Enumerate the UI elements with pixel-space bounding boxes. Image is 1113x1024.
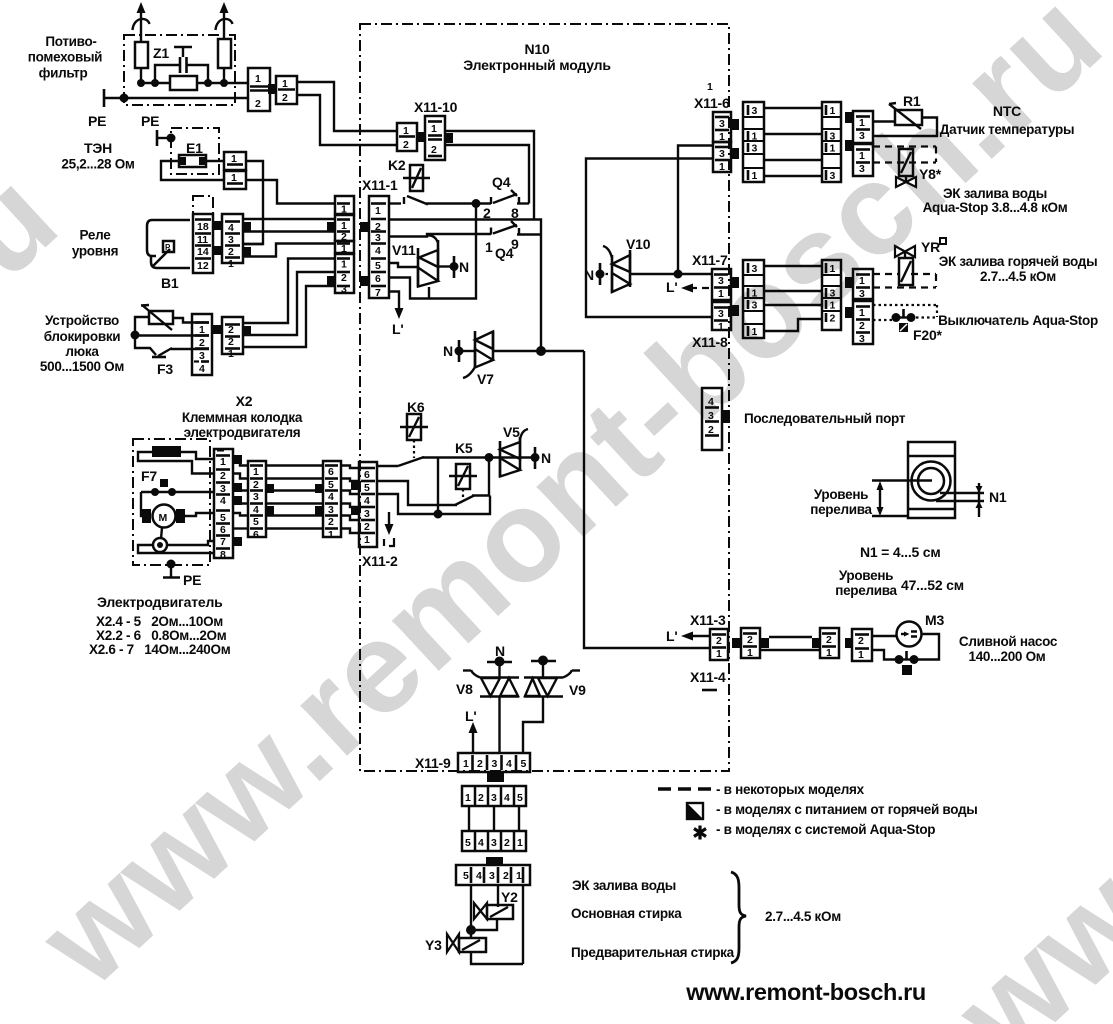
N terminal V8 [487, 657, 512, 678]
wire X11-2 pin5 to K5 contact [377, 481, 457, 505]
junction dot X11-7 line [674, 270, 683, 279]
pump thermal switch [895, 651, 919, 675]
junction dots on filter wire [137, 79, 228, 87]
svg-text:Потиво-: Потиво- [45, 34, 96, 49]
X11-10 right square [445, 133, 453, 143]
svg-text:- в некоторых моделях: - в некоторых моделях [716, 782, 865, 797]
svg-text:2: 2 [341, 272, 347, 284]
svg-text:5: 5 [517, 792, 523, 804]
X11-6 right squares [731, 119, 739, 159]
label level overflow [810, 487, 872, 517]
svg-text:K5: K5 [455, 440, 473, 456]
contact K5 [455, 458, 489, 506]
svg-text:2: 2 [503, 870, 509, 882]
svg-text:1: 1 [752, 170, 758, 182]
resistor in filter (horizontal) [170, 76, 197, 90]
triac V9 [524, 670, 580, 697]
B1 mate connector 4/3/2/1 [222, 214, 243, 270]
label L' X11-7 [666, 279, 677, 295]
svg-text:Y3: Y3 [425, 937, 442, 953]
connector X11-9 [458, 753, 530, 772]
svg-text:2: 2 [328, 516, 334, 528]
label Y3 [425, 937, 442, 953]
wire door pin2a to X11-1 mate [243, 259, 335, 324]
svg-text:1: 1 [707, 81, 713, 93]
capacitor plates [180, 57, 187, 73]
svg-text:6: 6 [328, 466, 334, 478]
svg-text:X11-1: X11-1 [362, 177, 398, 193]
wire V9 down to X11-9 [523, 697, 543, 753]
svg-text:N: N [459, 259, 469, 275]
door lock pin column 1/2/3/4 [192, 314, 212, 375]
noise filter enclosure Z1 box [124, 35, 235, 105]
pump component connector [845, 638, 853, 648]
label M3 [925, 612, 944, 628]
svg-text:X2.6 - 7 14Ом...240Ом: X2.6 - 7 14Ом...240Ом [89, 642, 231, 657]
svg-text:B1: B1 [161, 275, 179, 291]
svg-text:25,2...28 Ом: 25,2...28 Ом [61, 157, 134, 172]
valve block connector 54321 [456, 865, 530, 885]
label X11-9 [415, 755, 451, 771]
svg-text:1: 1 [830, 300, 836, 312]
svg-text:1: 1 [228, 348, 234, 360]
svg-text:3: 3 [830, 288, 836, 300]
NTC far stack [822, 102, 841, 182]
svg-text:2: 2 [859, 320, 865, 332]
svg-text:3: 3 [341, 284, 347, 296]
label PE heater [141, 113, 159, 129]
valve Y8 [896, 149, 916, 187]
label F20* [913, 327, 943, 343]
svg-text:3: 3 [491, 792, 497, 804]
svg-text:PE: PE [88, 113, 106, 129]
svg-text:1: 1 [830, 143, 836, 155]
contact K6 [377, 457, 424, 466]
svg-text:1: 1 [465, 792, 471, 804]
wire right choke up with arrow [216, 2, 233, 39]
connector X11-3 [710, 629, 728, 660]
label Z1 [153, 45, 169, 61]
harness wires 1-3-5 [469, 806, 519, 831]
triac V5 [500, 429, 528, 477]
label F7 [141, 468, 157, 484]
label serial port [744, 411, 906, 426]
label Y8* [919, 166, 942, 182]
N terminal V9 [531, 656, 556, 678]
label K5 [455, 440, 473, 456]
mate stack right squares [266, 484, 274, 515]
hot water component connector [853, 269, 873, 300]
wire X11-2 pin4 branch [377, 458, 490, 519]
svg-text:3: 3 [708, 410, 714, 422]
wire filter pin2 to X11-10 [297, 95, 397, 145]
svg-text:3: 3 [752, 143, 758, 155]
connector E1 top [224, 152, 246, 170]
label V10 [626, 236, 651, 252]
dimension arrow level [877, 481, 884, 516]
NTC harness wires [764, 108, 822, 176]
motor M armature [142, 505, 185, 528]
wire X11-1 pin2 long L line [389, 220, 541, 352]
svg-text:5: 5 [463, 870, 469, 882]
svg-text:NTC: NTC [993, 103, 1021, 119]
X2 column right squares [234, 455, 242, 546]
L' arrow X11-3 [681, 632, 710, 641]
svg-text:3: 3 [719, 148, 725, 160]
label X11-4 [690, 669, 726, 685]
svg-text:2: 2 [364, 521, 370, 533]
relay coil K6 [400, 414, 428, 458]
wire E1 top to B1 pin2 (down at x263) [243, 161, 263, 244]
svg-text:2.7...4.5 кОм: 2.7...4.5 кОм [765, 909, 841, 924]
svg-text:ЭК залива воды: ЭК залива воды [943, 186, 1047, 201]
F3 thermal switch [135, 335, 209, 357]
label N V8 [495, 643, 505, 659]
relay coil K5 [449, 464, 477, 499]
N terminal of V7 [455, 340, 476, 362]
main filter wire [141, 68, 248, 83]
wire X11-1 pin6 loop up to junction [389, 204, 476, 299]
choke L2 (right vertical resistor) [218, 39, 231, 68]
wire door pin2b to X11-1 mate [243, 272, 335, 335]
svg-text:1: 1 [463, 758, 469, 770]
wire E1 bottom to X11-1 pin1 [246, 180, 335, 204]
wire cell5 down [470, 885, 472, 939]
svg-text:M3: M3 [925, 612, 944, 628]
svg-text:1: 1 [752, 131, 758, 143]
svg-text:Последовательный порт: Последовательный порт [744, 411, 906, 426]
svg-text:4: 4 [220, 495, 226, 507]
N terminal of V10 [596, 263, 613, 285]
door lock thermistor [141, 305, 173, 330]
motor enclosure [133, 439, 210, 565]
X11-1 mate stack squares [327, 222, 335, 286]
svg-text:1: 1 [718, 321, 724, 333]
junction dot pin1 line [472, 199, 481, 208]
dotted circuit F20 [873, 305, 937, 320]
svg-text:- в моделях с питанием от гор: - в моделях с питанием от горячей воды [716, 802, 978, 817]
label X11-3 [690, 612, 726, 628]
wire tacho circle left loop to pin8 [138, 545, 215, 553]
wire X11-10 pin2 to Q4 contact 8 [445, 145, 529, 204]
svg-text:1: 1 [253, 466, 259, 478]
wire left choke up with arrow [133, 2, 150, 42]
wire B1 pin4 to X11-1 mate [243, 218, 335, 220]
label Q4 upper [492, 174, 511, 190]
wire V8 down to X11-9 [498, 697, 500, 753]
label Y2 [501, 889, 518, 905]
connector X11-1 [369, 196, 389, 299]
svg-text:F3: F3 [157, 361, 173, 377]
label K2 [388, 157, 406, 173]
svg-text:1: 1 [752, 326, 758, 338]
X2 pin column 1-8 [214, 449, 233, 561]
wire V11 bottom to loop [428, 287, 430, 299]
wire tacho left loop to pin2 [138, 452, 215, 474]
label N V5 [541, 450, 551, 466]
connector 1/2 after filter [248, 68, 270, 111]
svg-text:2: 2 [716, 635, 722, 647]
triac V11 [418, 235, 438, 287]
svg-text:Q4: Q4 [492, 174, 511, 190]
thermistor R1 [889, 103, 922, 129]
svg-text:2: 2 [220, 470, 226, 482]
svg-text:3: 3 [489, 870, 495, 882]
svg-text:1: 1 [859, 275, 865, 287]
svg-text:1: 1 [859, 307, 865, 319]
N1 lines [936, 483, 984, 517]
svg-text:4: 4 [506, 758, 512, 770]
choke L1 (left vertical resistor) [135, 42, 148, 68]
wire B1 pin1 to X11-1 mate [243, 244, 335, 257]
label E1 [186, 140, 203, 156]
wire main to pin2 [135, 334, 209, 336]
door lock mate connector 2/2/1 [222, 317, 243, 360]
svg-text:Выключатель Aqua-Stop: Выключатель Aqua-Stop [938, 313, 1098, 328]
svg-text:N: N [541, 450, 551, 466]
wire R1 loop [873, 118, 937, 137]
svg-text:Y2: Y2 [501, 889, 518, 905]
X11-2 L' arrow [384, 512, 394, 546]
svg-text:5: 5 [364, 482, 370, 494]
svg-text:1: 1 [826, 647, 832, 659]
NTC component connector [853, 111, 873, 143]
svg-text:6: 6 [375, 273, 381, 285]
wire motor right to pin5 [185, 513, 215, 516]
svg-text:2: 2 [403, 139, 409, 151]
legend text 2 [716, 802, 978, 817]
door lock label [40, 313, 124, 374]
valve block mating black rect [486, 857, 503, 865]
connector X11-10 [425, 116, 445, 160]
label N1 [989, 489, 1007, 505]
svg-text:YR: YR [921, 239, 940, 255]
label X11-10 [414, 99, 458, 115]
svg-text:ТЭН: ТЭН [84, 140, 112, 156]
wire pump pin2 to M3 [872, 635, 897, 637]
svg-text:47...52 см: 47...52 см [901, 577, 964, 593]
svg-text:1: 1 [719, 161, 725, 173]
svg-text:L': L' [666, 628, 677, 644]
wire Y3 bottom loop [471, 952, 523, 964]
thermal contact F7 [141, 479, 215, 496]
svg-text:1: 1 [716, 648, 722, 660]
svg-text:- в моделях с системой Aqua-S: - в моделях с системой Aqua-Stop [716, 822, 935, 837]
motor resistance labels [89, 594, 231, 657]
label drain pump [959, 634, 1058, 664]
X11-7/8 right squares [731, 277, 739, 316]
svg-text:1: 1 [364, 534, 370, 546]
junction dot Y2/Y3 [466, 925, 476, 935]
X11-7/8 mate stack [743, 260, 764, 338]
X11-3 mate squares [732, 638, 741, 648]
wire V7 line down to X11-3 [584, 351, 710, 648]
svg-text:3: 3 [859, 288, 865, 300]
svg-text:L': L' [465, 708, 476, 724]
svg-text:5: 5 [253, 516, 259, 528]
svg-text:1: 1 [431, 123, 437, 135]
svg-text:7: 7 [220, 536, 226, 548]
svg-text:7: 7 [375, 287, 381, 299]
X11-10 mating square [417, 132, 425, 142]
svg-text:1: 1 [375, 205, 381, 217]
svg-text:140...200 Ом: 140...200 Ом [969, 649, 1046, 664]
harness connector 12345 [462, 786, 526, 806]
svg-text:Электронный модуль: Электронный модуль [463, 57, 611, 73]
label L' X11-9 [465, 708, 476, 724]
serial port connector [702, 388, 722, 450]
junction dot V5 line [485, 453, 494, 462]
heater E1 enclosure [171, 128, 219, 174]
svg-text:2: 2 [255, 98, 261, 110]
wire door pin1 to X11-1 mate [243, 286, 335, 347]
label V11 [392, 242, 416, 258]
label V5 [503, 424, 520, 440]
hot water harness wires [764, 266, 822, 331]
svg-text:1: 1 [752, 288, 758, 300]
svg-text:2: 2 [431, 144, 437, 156]
svg-text:N1: N1 [989, 489, 1007, 505]
svg-text:1: 1 [231, 172, 237, 184]
svg-text:электродвигателя: электродвигателя [184, 425, 301, 440]
relay coil K2 [403, 165, 430, 191]
mate connector 1/2 [276, 76, 297, 104]
pressure switch B1 enclosure [193, 196, 213, 273]
svg-text:2: 2 [747, 634, 753, 646]
tacho coil (black rect) [152, 446, 181, 457]
wire K6 to V5 line [422, 456, 535, 458]
label R1 [903, 93, 921, 109]
svg-text:8: 8 [220, 549, 226, 561]
X11-3 mate connector [741, 628, 760, 659]
wire E1 right [206, 160, 224, 162]
svg-text:X11-2: X11-2 [362, 553, 398, 569]
svg-text:12: 12 [197, 260, 209, 272]
junction dot V7 line [536, 346, 546, 356]
svg-text:3: 3 [752, 263, 758, 275]
label V9 [569, 682, 586, 698]
svg-text:Устройство: Устройство [45, 313, 119, 328]
svg-text:1: 1 [228, 258, 234, 270]
legend text 1 [716, 782, 865, 797]
svg-text:P: P [165, 243, 171, 252]
NTC component connector squares [845, 112, 853, 151]
triac V7 [463, 331, 493, 378]
noise filter label [28, 34, 102, 81]
svg-text:2: 2 [826, 634, 832, 646]
svg-text:1: 1 [231, 153, 237, 165]
svg-text:Q4: Q4 [495, 245, 514, 261]
svg-text:Y8*: Y8* [919, 166, 942, 182]
svg-text:18: 18 [197, 221, 209, 233]
svg-text:www.remont-bosch.ru: www.remont-bosch.ru [685, 979, 926, 1005]
svg-text:V8: V8 [456, 681, 473, 697]
svg-text:V11: V11 [392, 242, 416, 258]
stack B left squares [315, 484, 323, 515]
label N V7 [443, 343, 453, 359]
svg-text:5: 5 [375, 260, 381, 272]
washing machine pictogram [908, 442, 955, 518]
svg-text:3: 3 [718, 275, 724, 287]
svg-text:E1: E1 [186, 140, 203, 156]
labels 2 and 8 [483, 205, 519, 221]
svg-text:1: 1 [859, 117, 865, 129]
valve YR [895, 246, 915, 285]
svg-text:1: 1 [830, 105, 836, 117]
label B1 [161, 275, 179, 291]
svg-text:4: 4 [199, 363, 205, 375]
drain pump M3 [897, 622, 922, 647]
svg-text:Клеммная колодка: Клеммная колодка [182, 410, 303, 425]
PE symbol of filter [104, 89, 129, 107]
L' arrow X11-7 [681, 284, 712, 293]
label L' X11-3 [666, 628, 677, 644]
capacitor Z1 top T mark [174, 47, 192, 57]
svg-text:2: 2 [228, 324, 234, 336]
svg-text:6: 6 [253, 529, 259, 541]
switch Q4 lower contact 1-9 [491, 221, 541, 235]
connector X11-8 [712, 302, 731, 333]
svg-text:F20*: F20* [913, 327, 943, 343]
wire cell3 down to Y2 [497, 885, 499, 907]
svg-text:3: 3 [859, 163, 865, 175]
door mate right square [243, 326, 251, 335]
svg-text:1: 1 [341, 204, 347, 216]
svg-text:1: 1 [516, 870, 522, 882]
svg-text:3: 3 [830, 170, 836, 182]
svg-text:V5: V5 [503, 424, 520, 440]
svg-text:Предварительная стирка: Предварительная стирка [571, 945, 735, 960]
label N V10 [584, 267, 594, 283]
svg-text:L': L' [392, 321, 403, 337]
B1 mating squares [213, 221, 222, 255]
svg-text:2: 2 [477, 758, 483, 770]
pump far connector [812, 638, 821, 648]
svg-text:M: M [159, 512, 168, 524]
label level 47..52 [835, 568, 964, 598]
svg-text:1: 1 [485, 239, 493, 255]
X11-9 mating black rect [487, 773, 504, 782]
valve circuit labels [571, 878, 735, 960]
serial port square [722, 410, 730, 423]
label NTC [940, 103, 1074, 137]
curly brace [731, 872, 746, 963]
svg-text:3: 3 [859, 333, 865, 345]
label F3 [157, 361, 173, 377]
hot water far stack [822, 260, 841, 330]
X11-4 dash mark [702, 689, 717, 692]
X2 col to mate wires [233, 459, 248, 529]
wire filter pin1 to X11-10 [297, 82, 397, 131]
svg-text:1: 1 [341, 259, 347, 271]
label hot water [939, 254, 1098, 284]
X11-2 mate stack 6-1 [323, 461, 341, 541]
tachogenerator circle [153, 528, 167, 553]
connector E1 bottom [224, 171, 246, 189]
level relay label [72, 228, 118, 259]
svg-text:2.7...4.5 кОм: 2.7...4.5 кОм [980, 269, 1056, 284]
label X11-8 [692, 334, 728, 350]
svg-text:PE: PE [141, 113, 159, 129]
wire V7 to junction [493, 350, 584, 352]
svg-text:фильтр: фильтр [39, 66, 88, 81]
svg-text:1: 1 [220, 456, 226, 468]
svg-text:уровня: уровня [72, 244, 118, 259]
svg-text:Датчик температуры: Датчик температуры [940, 122, 1074, 137]
X11-1 mate stack [335, 196, 354, 216]
svg-text:перелива: перелива [835, 583, 897, 598]
svg-text:Сливной насос: Сливной насос [959, 634, 1058, 649]
